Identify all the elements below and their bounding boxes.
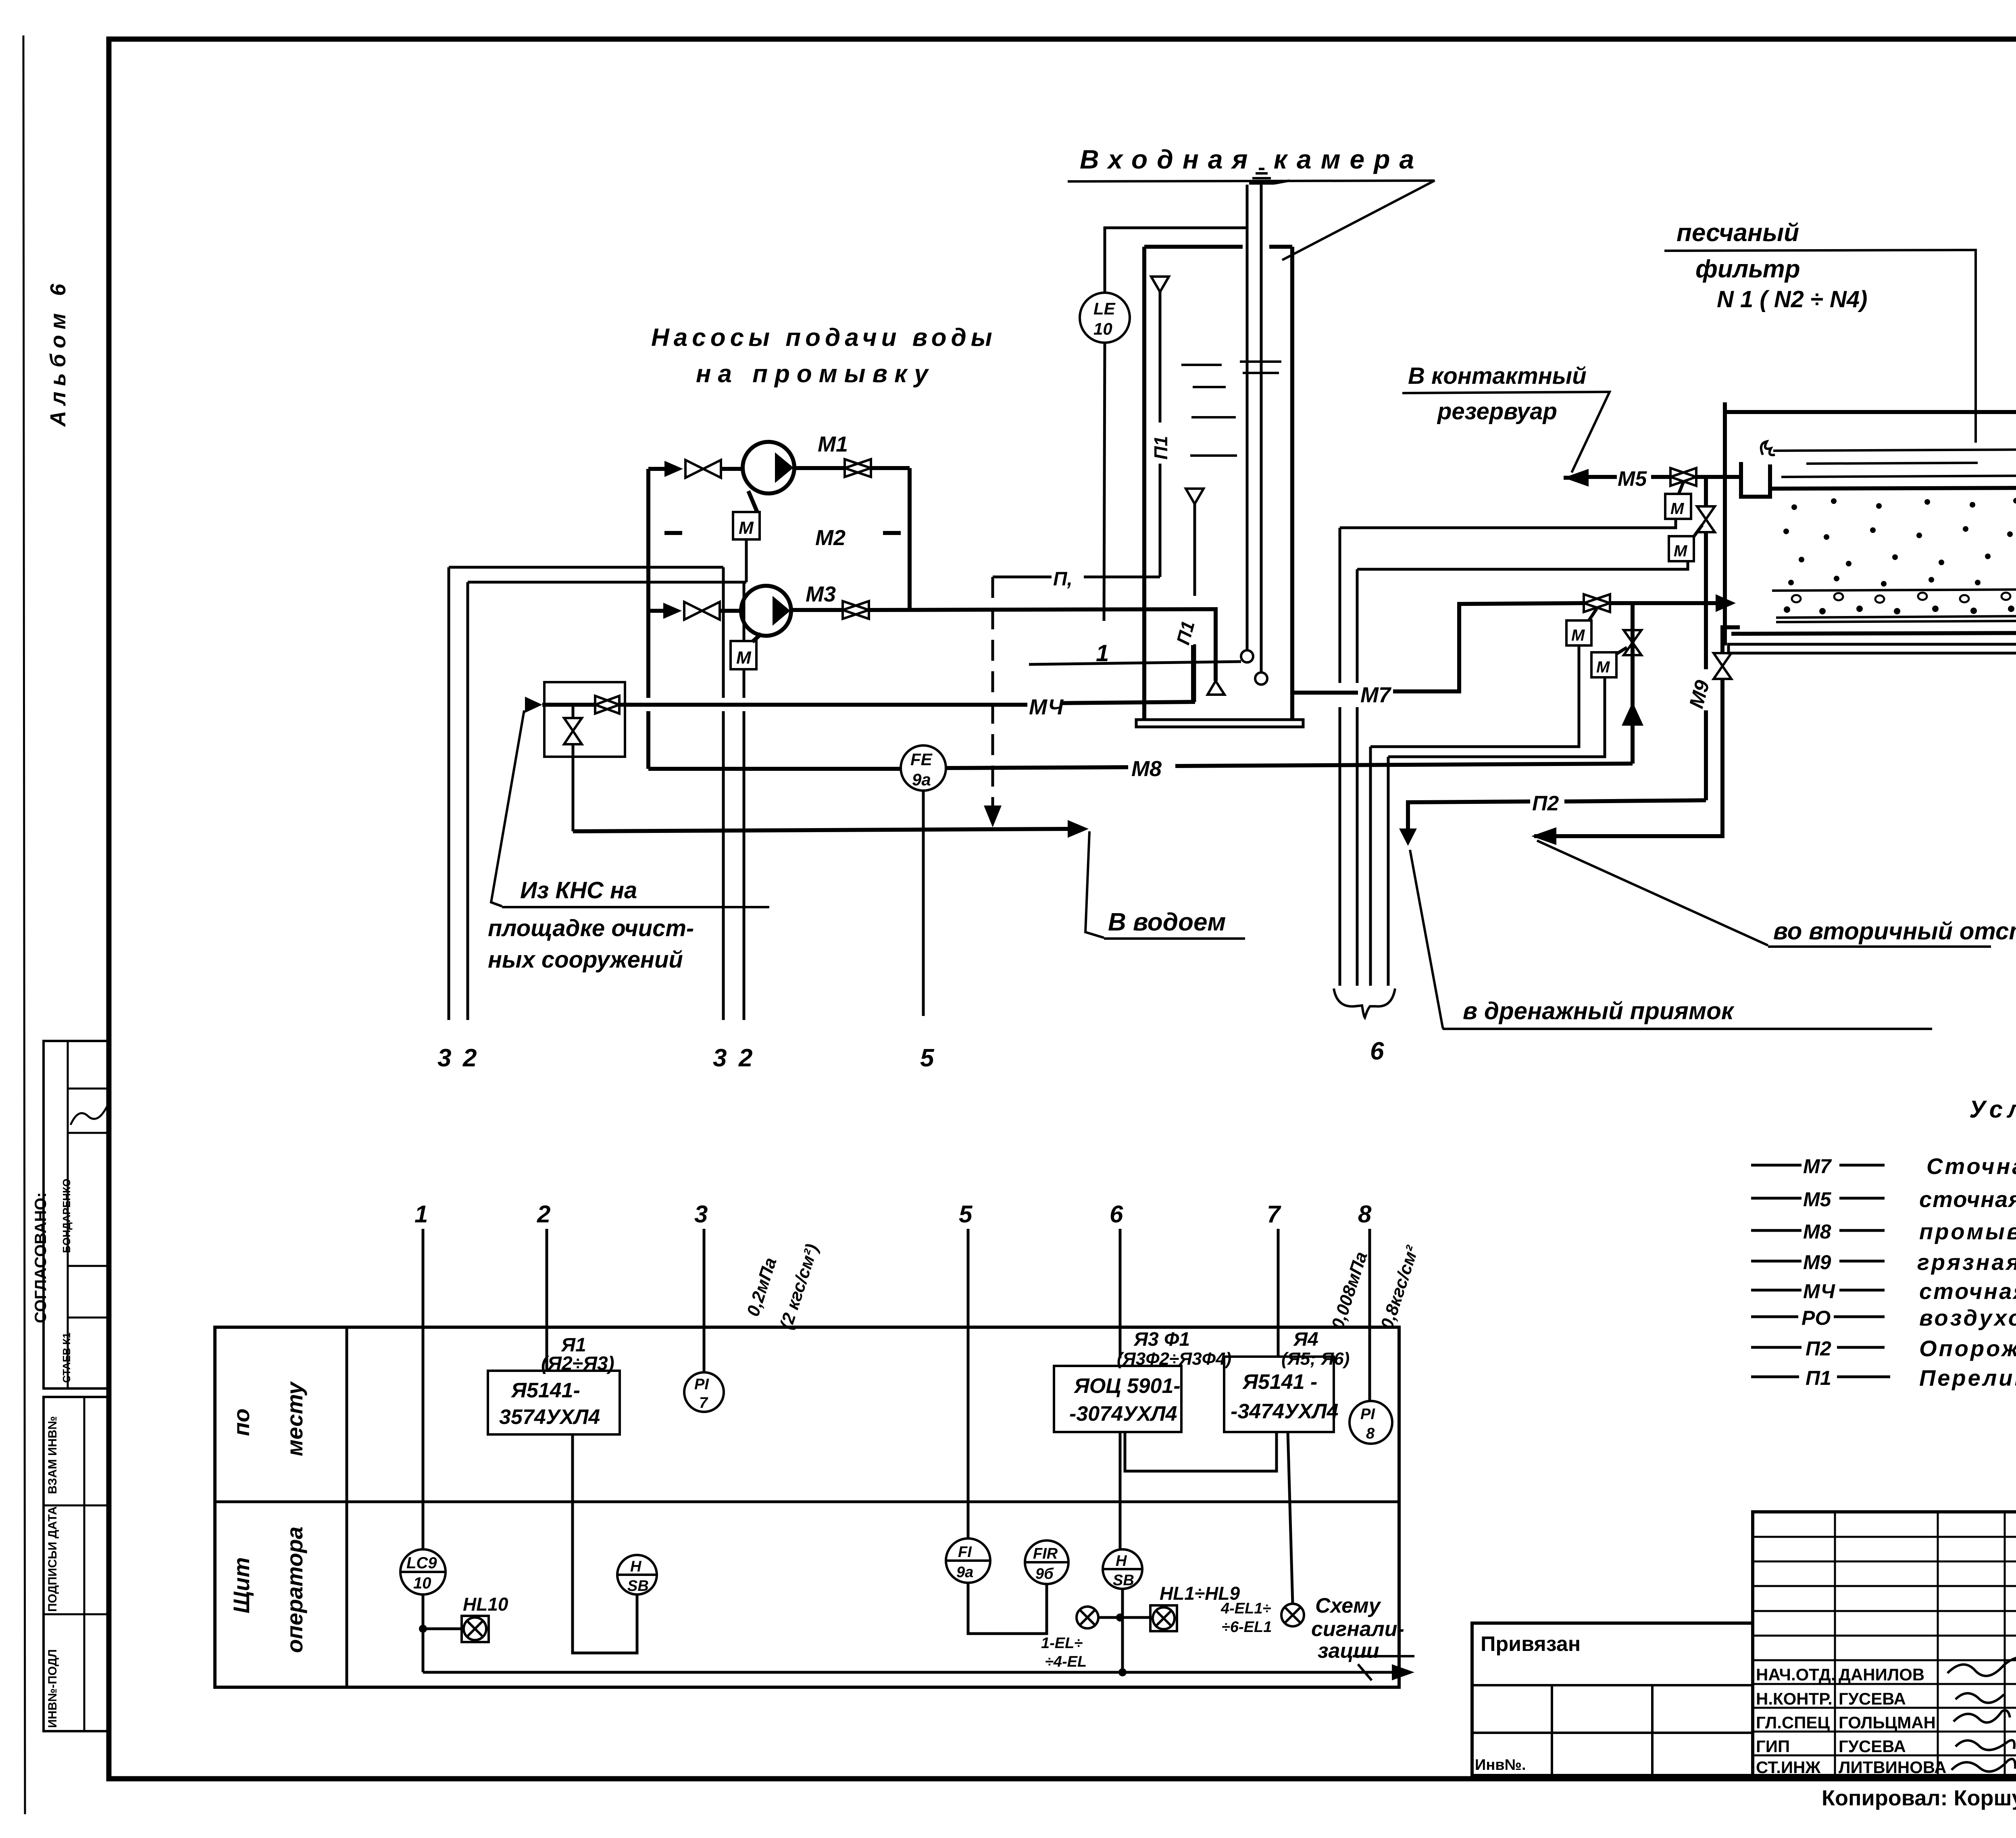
float 2 with rod xyxy=(1172,489,1204,702)
gate valve M1 suction xyxy=(685,460,743,478)
svg-text:М: М xyxy=(1596,658,1610,676)
svg-text:промывная вода.: промывная вода. xyxy=(1919,1219,2016,1244)
wire 3 left horizontal xyxy=(449,566,723,569)
KNS drain valve xyxy=(564,705,582,831)
svg-text:грязная промывная вода.: грязная промывная вода. xyxy=(1917,1249,2016,1275)
float 1 with rod xyxy=(1150,277,1171,577)
svg-text:8: 8 xyxy=(1366,1425,1375,1442)
svg-text:PI: PI xyxy=(1360,1406,1375,1423)
svg-text:ВЗАМ ИНВ№: ВЗАМ ИНВ№ xyxy=(46,1416,59,1494)
title Насосы подачи воды на промывку xyxy=(651,324,997,388)
svg-text:3: 3 xyxy=(437,1044,451,1072)
gauge PI 7 xyxy=(684,1372,724,1412)
legend row М5 xyxy=(1751,1186,2016,1212)
svg-text:М7: М7 xyxy=(1803,1155,1832,1178)
pressure note 0,008мПа xyxy=(1328,1243,1422,1332)
svg-text:9а: 9а xyxy=(956,1564,973,1581)
motor box П2 valve xyxy=(1591,647,1627,677)
lamp HL10 xyxy=(423,1594,508,1642)
svg-text:М: М xyxy=(1674,542,1688,560)
bundle brace and label 6 xyxy=(1334,989,1395,1065)
svg-text:ГУСЕВА: ГУСЕВА xyxy=(1839,1737,1906,1756)
svg-text:Насосы подачи воды: Насосы подачи воды xyxy=(651,324,997,352)
svg-text:2: 2 xyxy=(462,1044,477,1072)
row label Щит оператора xyxy=(229,1526,307,1653)
water level dashes in tank xyxy=(1181,362,1281,456)
svg-text:Я5141-: Я5141- xyxy=(510,1379,580,1402)
pump M1 xyxy=(743,432,848,493)
svg-text:М8: М8 xyxy=(1131,757,1162,781)
vertical label Альбом 6 xyxy=(46,278,70,427)
svg-text:(Я5; Я6): (Я5; Я6) xyxy=(1281,1349,1350,1369)
wire 3 xyxy=(694,1201,708,1372)
svg-text:1: 1 xyxy=(414,1201,428,1228)
svg-text:М2: М2 xyxy=(815,526,846,550)
svg-text:1-EL÷: 1-EL÷ xyxy=(1041,1635,1083,1652)
pipe П1 overflow to drain xyxy=(984,568,1160,827)
wire 2 left horizontal xyxy=(468,581,746,584)
legend row РО xyxy=(1751,1305,2016,1330)
svg-text:ГУСЕВА: ГУСЕВА xyxy=(1839,1689,1906,1708)
signal bus to annunciator xyxy=(423,1656,1414,1680)
gate valve M3 discharge xyxy=(791,601,869,619)
wire 6 xyxy=(1110,1201,1127,1676)
leader Из КНС xyxy=(488,710,769,973)
tank входная камера walls xyxy=(1144,247,1292,720)
svg-text:сигнали-: сигнали- xyxy=(1311,1617,1404,1641)
gate valve M3 suction xyxy=(684,602,742,620)
svg-text:FE: FE xyxy=(910,750,933,769)
svg-text:7: 7 xyxy=(699,1395,708,1411)
gauge PI 8 xyxy=(1350,1401,1392,1444)
svg-text:Из КНС на: Из КНС на xyxy=(520,877,637,903)
sand filter tank xyxy=(1725,402,2016,645)
svg-text:ГЛ.СПЕЦ: ГЛ.СПЕЦ xyxy=(1756,1713,1830,1732)
svg-text:FI: FI xyxy=(958,1544,972,1561)
pump discharge header to tank xyxy=(869,609,1216,681)
dip tube 1 xyxy=(1241,185,1253,662)
wire 7 xyxy=(1267,1201,1281,1357)
svg-text:ГОЛЬЦМАН: ГОЛЬЦМАН xyxy=(1839,1713,1936,1732)
svg-text:SВ: SВ xyxy=(627,1578,649,1594)
svg-text:зации: зации xyxy=(1318,1639,1379,1663)
svg-text:÷6-EL1: ÷6-EL1 xyxy=(1222,1619,1272,1636)
svg-text:на промывку: на промывку xyxy=(696,360,935,388)
table Привязан xyxy=(1472,1623,1753,1776)
svg-text:МЧ: МЧ xyxy=(1803,1280,1836,1303)
svg-text:ГИП: ГИП xyxy=(1756,1737,1790,1756)
title песчаный фильтр xyxy=(1664,219,1976,443)
pipe М8 wash water xyxy=(648,757,1633,781)
svg-text:М5: М5 xyxy=(1618,467,1647,491)
check valve M1 suction xyxy=(648,461,683,477)
svg-text:-3074УХЛ4: -3074УХЛ4 xyxy=(1069,1402,1177,1426)
svg-text:Щит: Щит xyxy=(229,1557,254,1613)
motor box M1 xyxy=(733,491,760,539)
svg-text:резервуар: резервуар xyxy=(1437,398,1557,425)
lower gravel dots xyxy=(1784,606,2014,614)
svg-text:Сточная вода на фильтрацию.: Сточная вода на фильтрацию. xyxy=(1926,1153,2016,1179)
svg-text:РО: РО xyxy=(1801,1307,1831,1329)
pipe to water body В водоем xyxy=(573,820,1245,939)
lamp 1-EL 4-EL xyxy=(1041,1607,1150,1670)
filter drain line to П2 xyxy=(1531,627,1740,845)
svg-text:9б: 9б xyxy=(1035,1565,1054,1582)
KNS connection box xyxy=(544,682,625,757)
svg-text:песчаный: песчаный xyxy=(1677,219,1799,247)
svg-text:Перелив.: Перелив. xyxy=(1919,1365,2016,1390)
svg-text:П,: П, xyxy=(1053,568,1073,590)
svg-text:П2: П2 xyxy=(1806,1337,1831,1360)
М8 riser with flow arrow xyxy=(1622,603,1643,764)
left margin stamp box ИНВ columns xyxy=(44,1397,109,1731)
motor box М5 valve xyxy=(1665,482,1691,519)
pressure note 0,2мПа xyxy=(743,1242,822,1332)
pipe М5 filtrate xyxy=(1564,467,1743,491)
svg-text:месту: месту xyxy=(282,1381,307,1456)
svg-text:ных сооружений: ных сооружений xyxy=(488,947,683,973)
svg-text:N 1 ( N2 ÷ N4): N 1 ( N2 ÷ N4) xyxy=(1717,286,1867,312)
svg-text:6: 6 xyxy=(1370,1037,1384,1065)
svg-text:В контактный: В контактный xyxy=(1408,363,1587,389)
filter inlet trough xyxy=(1741,441,1775,497)
pipe М4 from KNS xyxy=(525,645,1193,719)
signal wire 1 from LE xyxy=(1096,343,1109,666)
svg-text:Н.КОНТР.: Н.КОНТР. xyxy=(1756,1689,1833,1708)
reserve pump M2 ticks xyxy=(664,526,901,550)
pipe М7 to filter xyxy=(1292,594,1736,707)
gravel layer boundary xyxy=(1772,589,2016,591)
recorder FIR 9б xyxy=(1025,1540,1068,1584)
suction line to dip circle xyxy=(1029,662,1241,664)
svg-text:ПОДПИСЬИ ДАТА: ПОДПИСЬИ ДАТА xyxy=(46,1506,59,1612)
svg-text:М3: М3 xyxy=(806,582,836,606)
svg-text:П1: П1 xyxy=(1150,436,1171,460)
leader в дренажный приямок xyxy=(1410,850,1932,1029)
note Схему сигнализации xyxy=(1311,1594,1404,1663)
gravel circles xyxy=(1792,593,2010,603)
svg-text:во вторичный отстойник: во вторичный отстойник xyxy=(1773,918,2016,945)
svg-text:8: 8 xyxy=(1358,1201,1372,1228)
controller LC9 10 xyxy=(400,1549,446,1672)
svg-text:ЯОЦ 5901-: ЯОЦ 5901- xyxy=(1073,1374,1181,1398)
svg-text:5: 5 xyxy=(959,1201,973,1228)
wire 8 xyxy=(1358,1201,1372,1401)
svg-text:2: 2 xyxy=(738,1044,752,1072)
underdrain plate xyxy=(1776,616,2016,622)
svg-text:Н: Н xyxy=(630,1558,642,1575)
filter bottom structure xyxy=(1729,633,2016,653)
wire from M1 motor xyxy=(745,539,748,582)
svg-text:фильтр: фильтр xyxy=(1695,255,1800,283)
svg-text:М8: М8 xyxy=(1803,1220,1831,1243)
svg-text:Схему: Схему xyxy=(1315,1594,1382,1617)
leader В контактный резервуар xyxy=(1402,363,1610,473)
panel outline xyxy=(215,1327,1399,1687)
svg-text:в дренажный приямок: в дренажный приямок xyxy=(1463,997,1735,1024)
svg-text:воздуховод .: воздуховод . xyxy=(1919,1305,2016,1330)
svg-text:Я5141 -: Я5141 - xyxy=(1242,1370,1317,1394)
svg-text:П1: П1 xyxy=(1806,1367,1831,1389)
svg-text:МЧ: МЧ xyxy=(1029,695,1064,719)
svg-text:по: по xyxy=(229,1409,254,1436)
legend row М4 xyxy=(1751,1278,2016,1304)
svg-text:10: 10 xyxy=(1093,319,1112,338)
svg-text:LC9: LC9 xyxy=(406,1554,437,1572)
wire 5 from FE xyxy=(920,791,935,1072)
svg-text:2: 2 xyxy=(537,1201,550,1228)
left margin stamp box СОГЛАСОВАНО xyxy=(32,1041,109,1388)
sand dots xyxy=(1783,498,2016,587)
legend row П2 xyxy=(1751,1336,2016,1361)
svg-text:3: 3 xyxy=(694,1201,708,1228)
leader во вторичный отстойник xyxy=(1537,841,2016,947)
filter water surface lines xyxy=(1773,450,2016,477)
hand switch H SB left xyxy=(617,1555,657,1594)
svg-text:5: 5 xyxy=(920,1044,935,1072)
check valve M3 suction xyxy=(648,603,682,619)
dip tube 2 xyxy=(1255,185,1267,685)
wire M1 riser xyxy=(908,468,912,610)
manifold left vertical xyxy=(646,469,650,769)
svg-text:ЛИТВИНОВА: ЛИТВИНОВА xyxy=(1839,1758,1946,1777)
svg-text:В водоем: В водоем xyxy=(1108,908,1226,936)
svg-text:оператора: оператора xyxy=(282,1526,307,1653)
svg-text:Инв№.: Инв№. xyxy=(1475,1757,1526,1773)
interbox link xyxy=(1125,1432,1277,1471)
motor box M3 xyxy=(731,634,761,669)
legend row М9 xyxy=(1751,1249,2016,1275)
svg-text:НАЧ.ОТД.: НАЧ.ОТД. xyxy=(1756,1665,1836,1684)
svg-text:СОГЛАСОВАНО:: СОГЛАСОВАНО: xyxy=(32,1192,50,1323)
svg-text:БОНДАРЕНКО: БОНДАРЕНКО xyxy=(60,1178,73,1253)
footer Копировал xyxy=(1822,1785,2016,1810)
signature rows text xyxy=(1756,1665,1946,1777)
svg-text:HL10: HL10 xyxy=(463,1594,508,1615)
control wire М9 valve run xyxy=(1357,562,1688,569)
control wire П2 valve xyxy=(1388,677,1605,757)
pipe П2 emptying xyxy=(1399,792,1706,846)
pump M3 xyxy=(741,582,836,636)
svg-text:сточная вода после биологич: сточная вода после биологической очистки… xyxy=(1919,1278,2016,1304)
svg-text:÷4-EL: ÷4-EL xyxy=(1045,1653,1087,1670)
signature table grid xyxy=(1753,1512,2016,1776)
instrument LE 10 xyxy=(1080,228,1246,343)
svg-text:М5: М5 xyxy=(1803,1188,1832,1211)
lamp 4-EL1 6-EL1 xyxy=(1220,1432,1304,1636)
pipe М9 drop with valve xyxy=(1685,477,1715,800)
svg-text:PI: PI xyxy=(694,1376,709,1393)
svg-text:М: М xyxy=(736,648,752,668)
local box Я3Ф1 xyxy=(1054,1329,1231,1432)
scan edge line left xyxy=(23,35,25,1814)
hand switch H SB right xyxy=(1103,1549,1142,1589)
tank base plate xyxy=(1136,720,1303,727)
svg-text:LE: LE xyxy=(1093,299,1116,318)
local box Я4 xyxy=(1224,1329,1350,1432)
svg-text:Н: Н xyxy=(1116,1553,1127,1569)
svg-text:FIR: FIR xyxy=(1033,1545,1058,1562)
lamp HL1-HL9 xyxy=(1150,1583,1240,1631)
wire 1 xyxy=(414,1201,428,1549)
svg-text:Альбом 6: Альбом 6 xyxy=(46,278,70,427)
gate valve M1 discharge xyxy=(794,459,910,477)
level symbol on dip tubes xyxy=(1249,169,1289,183)
wire 3 mid drop xyxy=(713,567,727,1072)
svg-text:10: 10 xyxy=(413,1574,431,1592)
svg-text:М9: М9 xyxy=(1803,1251,1831,1274)
wire 2 left drop xyxy=(462,582,477,1072)
control wire М5 valve run xyxy=(1340,519,1676,528)
svg-text:СТАЕВ К1: СТАЕВ К1 xyxy=(60,1332,73,1383)
svg-text:SВ: SВ xyxy=(1113,1572,1134,1589)
svg-text:3: 3 xyxy=(713,1044,727,1072)
wire 3 left drop xyxy=(437,567,451,1072)
svg-text:М: М xyxy=(1571,627,1585,644)
svg-text:9а: 9а xyxy=(912,770,931,789)
svg-text:7: 7 xyxy=(1267,1201,1281,1228)
svg-text:М7: М7 xyxy=(1360,683,1392,707)
local box Я1 xyxy=(488,1334,620,1434)
svg-text:М: М xyxy=(739,518,754,538)
row label по месту xyxy=(229,1381,307,1456)
svg-text:Копировал: Коршунова: Копировал: Коршунова xyxy=(1822,1786,2016,1810)
signatures squiggles xyxy=(1947,1653,2016,1771)
svg-text:Привязан: Привязан xyxy=(1481,1632,1581,1656)
discharge nozzle triangle xyxy=(1208,681,1225,695)
svg-text:ИНВ№-ПОДЛ: ИНВ№-ПОДЛ xyxy=(46,1649,59,1728)
control wire М7 valve xyxy=(1370,645,1579,747)
svg-text:ДАНИЛОВ: ДАНИЛОВ xyxy=(1839,1665,1924,1684)
svg-text:сточная вода после глубокой: сточная вода после глубокой очистки(филь… xyxy=(1919,1186,2016,1212)
indicator FI 9a xyxy=(946,1538,1047,1634)
control bundle verticals xyxy=(1340,528,1388,986)
svg-text:Входная камера: Входная камера xyxy=(1080,144,1423,174)
svg-text:3574УХЛ4: 3574УХЛ4 xyxy=(499,1405,600,1429)
motor box М9 valve xyxy=(1669,525,1702,561)
flow element FE 9a xyxy=(901,745,946,791)
wire Я1 to H SB xyxy=(573,1434,637,1653)
legend row П1 xyxy=(1751,1365,2016,1390)
motor box М7 valve xyxy=(1566,609,1597,645)
wire 2 mid drop xyxy=(738,582,752,1072)
svg-text:4-EL1÷: 4-EL1÷ xyxy=(1220,1600,1271,1617)
wire 5 xyxy=(959,1201,973,1539)
svg-text:Условные обозначения .: Условные обозначения . xyxy=(1969,1096,2016,1123)
sand bed boundary xyxy=(1772,488,2016,489)
svg-text:М1: М1 xyxy=(818,432,848,456)
svg-text:П2: П2 xyxy=(1532,792,1559,815)
legend row М8 xyxy=(1751,1219,2016,1244)
svg-text:Опорожнение.: Опорожнение. xyxy=(1919,1336,2016,1361)
legend row М7 xyxy=(1751,1153,2016,1179)
svg-text:М: М xyxy=(1670,500,1685,518)
svg-text:СТ.ИНЖ: СТ.ИНЖ xyxy=(1756,1758,1821,1777)
svg-text:-3474УХЛ4: -3474УХЛ4 xyxy=(1231,1400,1339,1423)
title Входная камера xyxy=(1068,144,1435,260)
svg-text:6: 6 xyxy=(1110,1201,1123,1228)
wire 2 xyxy=(537,1201,550,1370)
svg-text:Я3 Ф1: Я3 Ф1 xyxy=(1133,1329,1190,1350)
legend title xyxy=(1969,1096,2016,1123)
svg-text:Я4: Я4 xyxy=(1293,1329,1318,1350)
svg-text:площадке очист-: площадке очист- xyxy=(488,915,694,941)
